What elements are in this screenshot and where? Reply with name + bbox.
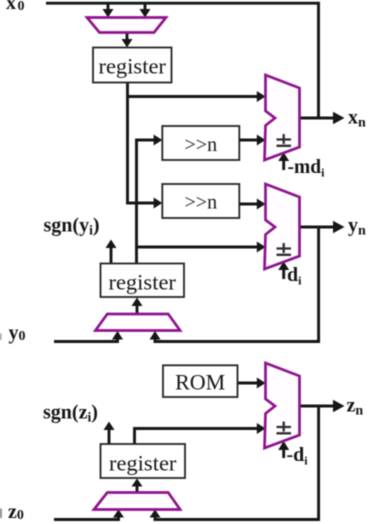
svg-text:>>n: >>n (185, 192, 218, 214)
svg-text:-mdi: -mdi (288, 157, 326, 180)
svg-text:register: register (109, 451, 177, 476)
svg-text:register: register (98, 54, 166, 79)
svg-text:register: register (108, 270, 176, 295)
svg-text:x0: x0 (6, 0, 25, 14)
svg-text:ROM: ROM (175, 370, 225, 395)
svg-text:>>n: >>n (185, 134, 218, 156)
